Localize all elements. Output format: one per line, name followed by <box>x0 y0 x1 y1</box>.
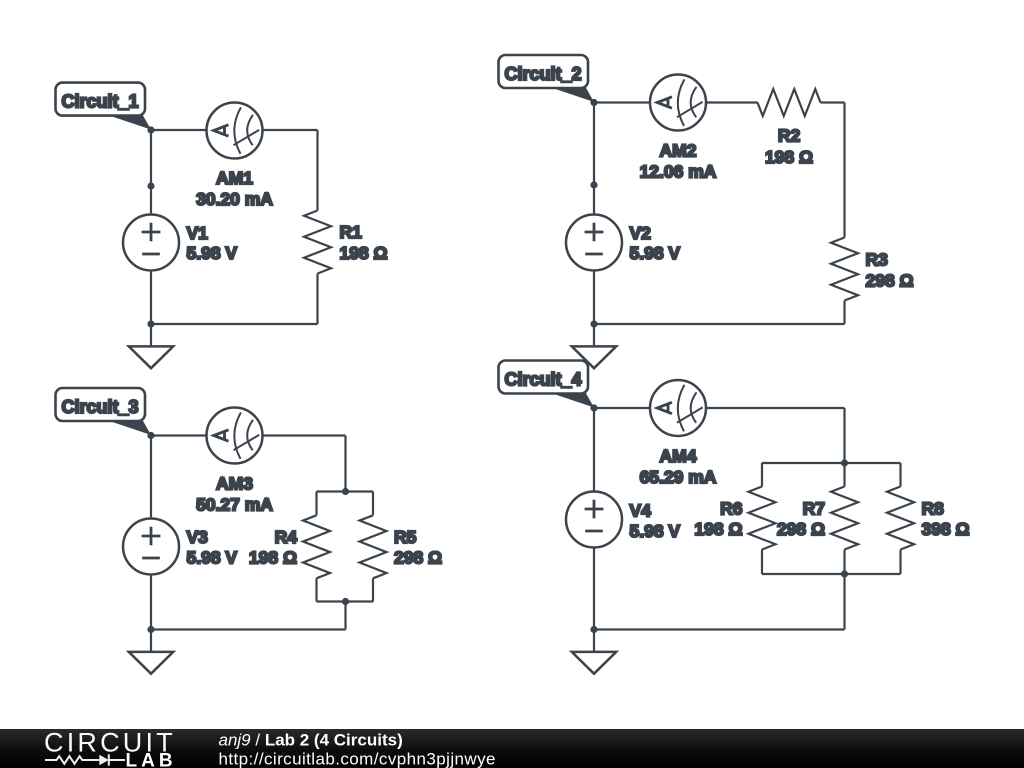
resistor R1 <box>304 211 331 274</box>
svg-text:298 Ω: 298 Ω <box>777 519 825 539</box>
wire node4 to AM4 left <box>594 407 650 409</box>
svg-text:Circuit_4: Circuit_4 <box>505 370 582 390</box>
svg-text:V3: V3 <box>187 527 209 547</box>
svg-text:198 Ω: 198 Ω <box>694 519 742 539</box>
svg-text:V1: V1 <box>187 223 209 243</box>
junction parallel bottom C4 <box>841 570 848 577</box>
svg-text:198 Ω: 198 Ω <box>249 548 297 568</box>
wire parallel bottom rail C4 <box>762 573 901 575</box>
svg-text:Circuit_1: Circuit_1 <box>62 92 139 112</box>
junction V2 top wire <box>590 181 597 188</box>
wire corner down to parallel top <box>843 408 845 463</box>
wire bottom rail C2 <box>594 323 845 325</box>
svg-text:12.06 mA: 12.06 mA <box>640 162 717 182</box>
wire AM4 right to corner <box>706 407 845 409</box>
svg-text:http://circuitlab.com/cvphn3pj: http://circuitlab.com/cvphn3pjjnwye <box>219 750 496 768</box>
svg-text:LAB: LAB <box>126 751 177 768</box>
wire V4 bottom down <box>593 548 595 630</box>
svg-text:198 Ω: 198 Ω <box>340 243 388 263</box>
wire node3 down to V3 top <box>150 436 152 519</box>
wire parallel bottom down <box>843 574 845 630</box>
junction C1 bottom <box>147 320 154 327</box>
svg-text:anj9 / Lab 2 (4 Circuits): anj9 / Lab 2 (4 Circuits) <box>219 731 403 750</box>
wire parallel bottom down <box>344 602 346 630</box>
wire R8 bottom stub <box>899 550 901 575</box>
wire corner down to R3 top <box>843 103 845 238</box>
svg-text:R7: R7 <box>803 499 825 519</box>
svg-text:R4: R4 <box>275 527 298 547</box>
svg-text:30.20 mA: 30.20 mA <box>196 189 273 209</box>
svg-text:Circuit_2: Circuit_2 <box>505 64 582 84</box>
svg-text:V4: V4 <box>630 501 652 521</box>
junction C4 bottom <box>590 626 597 633</box>
ground C4 <box>572 630 616 674</box>
ground C3 <box>129 630 173 674</box>
wire R8 top stub <box>899 463 901 487</box>
svg-text:5.98 V: 5.98 V <box>630 243 681 263</box>
junction C3 bottom <box>147 626 154 633</box>
svg-text:298 Ω: 298 Ω <box>394 548 442 568</box>
svg-text:Circuit_3: Circuit_3 <box>62 397 139 417</box>
node label Circuit_2 <box>499 55 595 102</box>
junction parallel top C3 <box>342 488 349 495</box>
svg-text:R1: R1 <box>340 222 363 242</box>
wire R4 bottom stub <box>315 578 317 601</box>
wire node1 down to V1 top <box>150 130 152 215</box>
resistor R6 <box>749 487 776 550</box>
wire parallel top rail C3 <box>317 490 374 492</box>
svg-text:AM1: AM1 <box>216 168 253 188</box>
svg-text:R8: R8 <box>922 499 945 519</box>
wire AM2 right to R2 left <box>706 101 758 103</box>
node Circuit_3 junction <box>147 432 154 439</box>
ammeter AM1 <box>207 103 263 159</box>
ammeter AM2 <box>650 75 706 131</box>
junction V1 top wire <box>147 182 154 189</box>
resistor R3 <box>831 238 858 301</box>
wire V2 bottom down <box>593 271 595 325</box>
resistor R7 <box>831 487 858 550</box>
wire AM3 right to corner <box>263 434 346 436</box>
svg-text:298 Ω: 298 Ω <box>866 271 914 291</box>
wire V3 bottom down <box>150 575 152 630</box>
ground C2 <box>572 324 616 368</box>
wire R5 bottom stub <box>372 578 374 601</box>
voltage source V3 <box>123 519 179 575</box>
voltage source V1 <box>123 215 179 271</box>
wire R7 top stub <box>843 463 845 487</box>
wire corner down to R1 top <box>316 130 318 211</box>
svg-text:AM4: AM4 <box>660 446 697 466</box>
wire parallel bottom rail C3 <box>317 600 374 602</box>
svg-text:398 Ω: 398 Ω <box>922 519 970 539</box>
resistor R4 <box>303 515 330 578</box>
wire R7 bottom stub <box>843 550 845 575</box>
wire node2 to AM2 left <box>594 101 650 103</box>
svg-text:5.98 V: 5.98 V <box>187 243 238 263</box>
node label Circuit_4 <box>499 361 595 408</box>
ammeter AM3 <box>207 408 263 464</box>
wire R4 top stub <box>315 492 317 516</box>
node Circuit_4 junction <box>590 404 597 411</box>
wire R1 bottom down <box>316 274 318 325</box>
node Circuit_2 junction <box>590 99 597 106</box>
wire R6 bottom stub <box>761 550 763 575</box>
svg-text:65.29 mA: 65.29 mA <box>640 467 717 487</box>
node label Circuit_3 <box>56 388 152 435</box>
svg-text:R5: R5 <box>394 527 417 547</box>
resistor R8 <box>887 487 914 550</box>
wire parallel top rail C4 <box>762 462 901 464</box>
svg-text:R2: R2 <box>778 126 801 146</box>
svg-text:5.98 V: 5.98 V <box>630 521 681 541</box>
wire node3 to AM3 left <box>151 434 207 436</box>
svg-text:50.27 mA: 50.27 mA <box>196 495 273 515</box>
wire R3 bottom down <box>843 301 845 325</box>
voltage source V4 <box>566 492 622 548</box>
wire node1 to AM1 left <box>151 129 207 131</box>
wire bottom rail C3 <box>151 628 346 630</box>
wire R2 right to corner <box>821 101 845 103</box>
wire R6 top stub <box>761 463 763 487</box>
junction C2 bottom <box>590 320 597 327</box>
resistor R2 <box>758 89 821 116</box>
voltage source V2 <box>566 215 622 271</box>
wire AM1 right to corner <box>263 129 318 131</box>
wire bottom rail C4 <box>594 628 845 630</box>
wire node2 down to V2 top <box>593 103 595 215</box>
wire bottom rail C1 <box>151 323 318 325</box>
svg-text:AM3: AM3 <box>216 474 253 494</box>
wire V1 bottom down <box>150 271 152 325</box>
svg-text:R3: R3 <box>866 250 889 270</box>
svg-text:AM2: AM2 <box>660 141 697 161</box>
svg-text:V2: V2 <box>630 223 652 243</box>
wire R5 top stub <box>372 492 374 516</box>
ground C1 <box>129 324 173 368</box>
ammeter AM4 <box>650 380 706 436</box>
svg-text:R6: R6 <box>720 499 743 519</box>
CircuitLab logo resistor-diode squiggle <box>45 754 125 765</box>
junction parallel top C4 <box>841 459 848 466</box>
wire corner down to parallel top <box>344 436 346 492</box>
resistor R5 <box>360 515 387 578</box>
svg-text:198 Ω: 198 Ω <box>765 147 813 167</box>
junction parallel bottom C3 <box>342 598 349 605</box>
node label Circuit_1 <box>56 83 152 130</box>
node Circuit_1 junction <box>147 126 154 133</box>
wire node4 down to V4 top <box>593 408 595 492</box>
svg-text:5.98 V: 5.98 V <box>187 548 238 568</box>
